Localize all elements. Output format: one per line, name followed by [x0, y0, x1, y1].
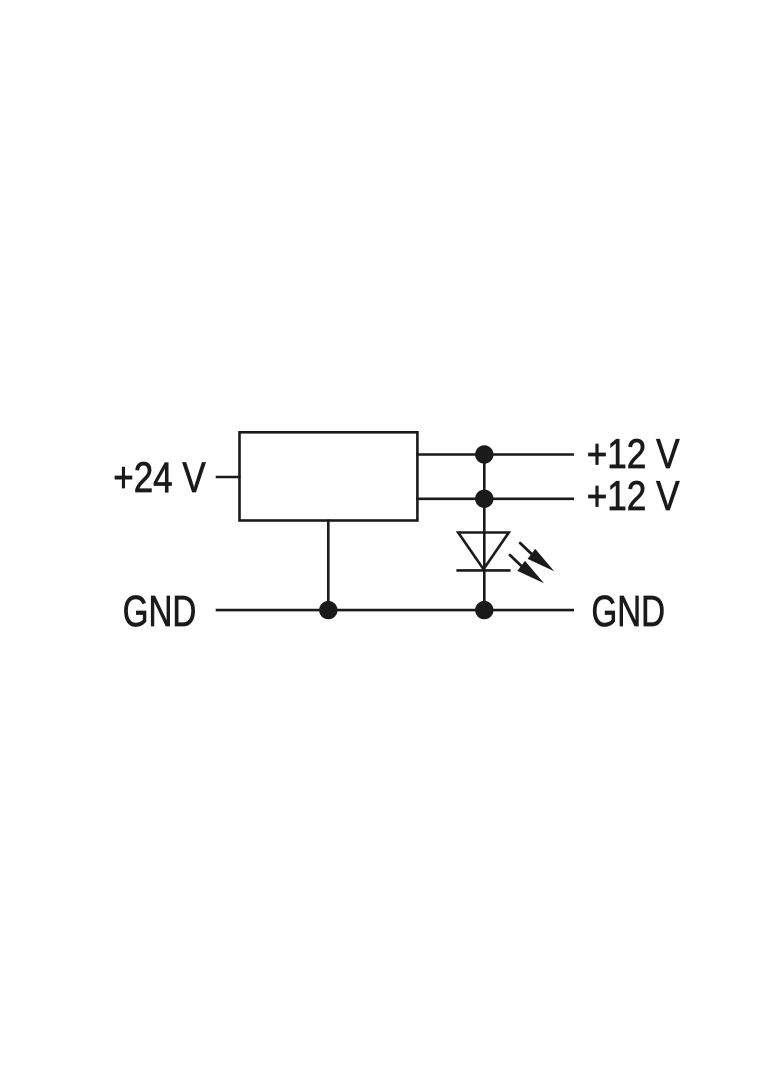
converter box U1 [240, 432, 418, 520]
LED emission arrow 2 [510, 555, 544, 583]
wire +12V output 2 [416, 497, 574, 500]
svg-text:+24 V: +24 V [113, 454, 206, 502]
svg-text:GND: GND [592, 587, 666, 636]
wire +12V output 1 [416, 453, 574, 456]
svg-text:+12 V: +12 V [587, 472, 680, 519]
junction dot node C (box ground / GND bus) [319, 601, 337, 619]
LED D1 cathode bar [456, 569, 510, 572]
wire box to ground vertical [327, 519, 330, 610]
wire LED branch vertical [483, 455, 486, 611]
junction dot node D (LED branch / GND bus) [475, 601, 493, 619]
junction dot node A (output 1 / LED branch) [475, 445, 493, 463]
LED D1 triangle [458, 533, 509, 570]
svg-text:+12 V: +12 V [587, 430, 680, 477]
wire +24V input [216, 476, 241, 479]
junction dot node B (output 2 / LED branch) [475, 490, 493, 508]
LED emission arrow 1 [520, 543, 554, 571]
svg-text:GND: GND [123, 587, 197, 636]
wire GND bus [216, 609, 574, 612]
